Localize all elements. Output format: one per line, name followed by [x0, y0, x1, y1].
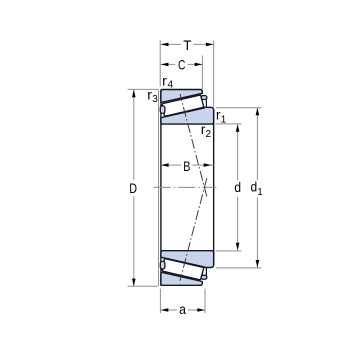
- wire: left face chamfer/extension line (gray): [158, 90, 160, 286]
- bearing axis centerline: [154, 186, 217, 188]
- cage section small end (bottom): [160, 261, 165, 269]
- extension line: d bottom: [215, 250, 241, 252]
- extension line: d1 top: [216, 107, 262, 109]
- roller top: [162, 95, 203, 116]
- svg-text:C: C: [178, 57, 185, 73]
- wire: cage/rib inner edge (bottom): [205, 268, 207, 276]
- svg-text:d: d: [234, 179, 241, 195]
- cage section small end (top): [160, 106, 165, 114]
- inner ring (cone) bottom: [161, 251, 214, 268]
- extension line: C right: [201, 56, 203, 90]
- extension line: d top: [215, 123, 241, 125]
- extension line: D bottom: [128, 285, 158, 287]
- extension line: a right (load centre): [204, 289, 206, 314]
- wire: front face silhouette line (right, between sections): [213, 110, 215, 265]
- dimension line C: [161, 63, 176, 65]
- inner ring (cone) top: [161, 107, 214, 124]
- svg-text:B: B: [183, 158, 190, 174]
- roller bottom: [162, 259, 203, 280]
- cage section big end (top): [201, 96, 207, 100]
- dimension line a: [161, 309, 177, 311]
- load line (bottom): [180, 178, 207, 280]
- extension line: T right: [213, 40, 215, 106]
- svg-text:r: r: [162, 72, 167, 88]
- svg-text:a: a: [179, 301, 186, 317]
- wire: left back-face silhouette line: [160, 90, 162, 286]
- dimension line d1: [256, 108, 258, 181]
- dimension line B: [161, 164, 181, 166]
- wire: cage/rib inner edge (top): [205, 100, 207, 108]
- svg-text:3: 3: [152, 94, 158, 105]
- svg-text:T: T: [183, 37, 192, 53]
- extension line: a left: [159, 289, 161, 314]
- svg-text:2: 2: [206, 129, 212, 140]
- dimension line d: [237, 124, 239, 180]
- dimension line D: [133, 90, 135, 181]
- outer ring (cup) top: [161, 90, 202, 103]
- svg-text:4: 4: [168, 80, 174, 91]
- svg-text:D: D: [129, 180, 137, 196]
- dimension line T: [161, 43, 181, 45]
- outer ring (cup) bottom: [161, 273, 202, 286]
- svg-text:d: d: [251, 179, 258, 195]
- extension line: T and C left (above bearing): [159, 40, 161, 86]
- extension line: D top: [128, 88, 159, 90]
- cage section big end (bottom): [201, 275, 207, 279]
- svg-text:1: 1: [221, 114, 227, 125]
- svg-text:1: 1: [257, 187, 263, 198]
- extension line: d1 bottom: [216, 267, 262, 269]
- load line (top, through roller to load centre): [180, 94, 207, 197]
